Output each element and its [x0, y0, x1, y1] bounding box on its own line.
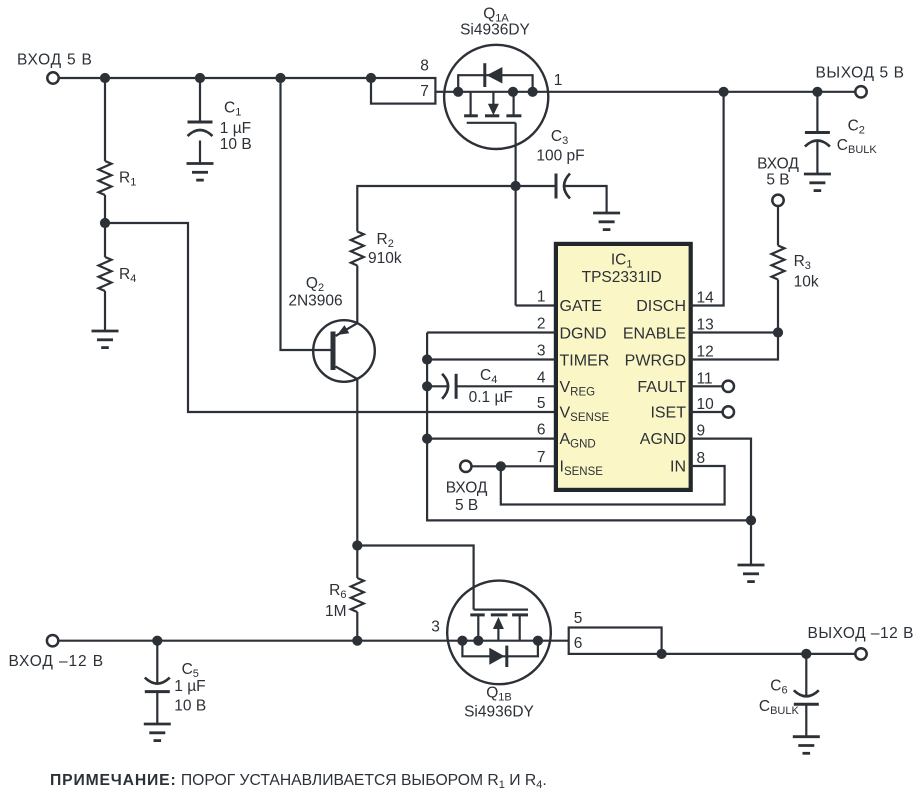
node AGND ground junction	[746, 515, 756, 525]
svg-text:13: 13	[697, 317, 714, 334]
wire gate node to Q1B gate	[357, 546, 473, 610]
svg-text:8: 8	[697, 450, 706, 467]
wire pin7 to Q1A	[435, 91, 444, 93]
svg-text:3: 3	[537, 343, 546, 360]
svg-text:100 pF: 100 pF	[536, 148, 584, 165]
wire R1 to R4	[104, 195, 106, 257]
transistor Q1B pins 5-6 loop	[569, 628, 662, 654]
wire -12V rail left	[58, 640, 447, 642]
node bus-TIMER	[422, 354, 432, 364]
svg-text:4: 4	[537, 369, 546, 386]
svg-text:Q1B: Q1B	[486, 684, 512, 703]
node bus-AGND6	[422, 434, 432, 444]
node junction rail-Q2base	[275, 73, 285, 83]
svg-text:C1: C1	[224, 100, 241, 119]
terminal ВЫХОД -12 В	[855, 648, 866, 659]
svg-text:1M: 1M	[325, 603, 347, 620]
Q1A substrate arrow	[488, 104, 499, 116]
wire TIMER to bus	[427, 358, 556, 360]
svg-text:ВХОД: ВХОД	[446, 479, 488, 496]
wire C3 left	[516, 185, 556, 187]
svg-text:10k: 10k	[794, 273, 819, 290]
wire C1 to ground	[199, 141, 201, 164]
terminal ВХОД 5 В bottom	[460, 461, 471, 472]
svg-text:Q2: Q2	[306, 275, 324, 294]
Q1B body diode	[489, 648, 504, 665]
svg-text:2: 2	[537, 316, 546, 333]
capacitor C3	[556, 174, 570, 199]
capacitor C5	[145, 678, 170, 692]
wire divider tap to VSENSE	[105, 223, 556, 412]
svg-text:910k: 910k	[368, 250, 402, 267]
svg-text:CBULK: CBULK	[759, 698, 800, 717]
svg-text:10: 10	[697, 396, 715, 413]
node rail-C2 junction	[812, 87, 822, 97]
svg-text:8: 8	[420, 58, 429, 75]
svg-text:R1: R1	[119, 170, 136, 189]
svg-text:10 В: 10 В	[220, 136, 252, 153]
transistor Q2	[313, 320, 375, 382]
svg-text:12: 12	[697, 344, 714, 361]
wire AGND-6 to bus	[427, 438, 556, 440]
svg-text:11: 11	[697, 370, 713, 387]
wire VREG to C4	[427, 385, 448, 387]
node gate link junction	[352, 540, 362, 550]
ground below R4	[92, 331, 119, 348]
svg-text:1: 1	[554, 72, 563, 89]
resistor R1	[99, 161, 112, 195]
node gate-C3 junction	[510, 181, 520, 191]
node Q1B left dot	[457, 636, 467, 646]
Q2 emitter arrow	[337, 325, 349, 335]
node Q1A source dot	[453, 87, 463, 97]
resistor R6	[351, 578, 364, 612]
svg-text:6: 6	[537, 422, 546, 439]
node junction rail-C1	[195, 73, 205, 83]
svg-text:R3: R3	[794, 253, 811, 272]
node Q1A right dot	[528, 87, 538, 97]
resistor R2	[351, 232, 364, 266]
wire AGND-9 to ground	[690, 439, 751, 565]
svg-text:ВХОД –12 В: ВХОД –12 В	[9, 653, 105, 670]
transistor Q1A body	[444, 45, 548, 149]
svg-text:C6: C6	[770, 678, 787, 697]
node junction rail-R1	[100, 73, 110, 83]
wire R1 top	[104, 78, 106, 161]
wire R3 top	[777, 206, 779, 246]
wire R2 top to gate node	[357, 186, 515, 232]
transistor Q1A pins 8-7 loop	[371, 78, 435, 104]
ground below C3	[593, 213, 620, 230]
svg-text:PWRGD: PWRGD	[625, 353, 686, 370]
svg-text:CBULK: CBULK	[837, 137, 878, 156]
svg-text:FAULT: FAULT	[637, 379, 686, 396]
node rail-C5 junction	[152, 636, 162, 646]
svg-text:C3: C3	[551, 128, 568, 147]
svg-text:5: 5	[574, 610, 583, 627]
svg-text:ISET: ISET	[650, 404, 686, 421]
wire C3 right to ground	[565, 186, 607, 213]
wire R3 bottom to ENABLE	[777, 280, 779, 333]
svg-text:C4: C4	[480, 367, 497, 386]
svg-text:1 µF: 1 µF	[174, 678, 205, 695]
wire R4 to ground	[104, 291, 106, 331]
node Q1B right dot	[533, 636, 543, 646]
wire C5 top	[156, 641, 158, 684]
svg-text:0.1 µF: 0.1 µF	[469, 389, 513, 406]
wire ISENSE loop to IN	[501, 466, 725, 505]
node ISENSE junction	[496, 461, 506, 471]
capacitor C1	[188, 122, 213, 136]
svg-text:R6: R6	[329, 582, 346, 601]
terminal ВХОД -12 В	[47, 635, 58, 646]
wire C6 top	[805, 654, 807, 696]
svg-text:10 В: 10 В	[174, 697, 206, 714]
svg-text:6: 6	[574, 635, 583, 652]
svg-text:TIMER: TIMER	[560, 353, 610, 370]
wire top 5V rail left	[59, 77, 371, 79]
svg-text:ПРИМЕЧАНИЕ: ПОРОГ УСТАНАВЛИВАЕ: ПРИМЕЧАНИЕ: ПОРОГ УСТАНАВЛИВАЕТСЯ ВЫБОРО…	[50, 772, 547, 791]
svg-text:DISCH: DISCH	[636, 298, 686, 315]
resistor R4	[99, 257, 112, 291]
capacitor C4	[442, 374, 456, 399]
svg-text:ENABLE: ENABLE	[623, 325, 686, 342]
wire Q1A drain rail to output	[548, 91, 855, 93]
svg-text:5 В: 5 В	[766, 171, 789, 188]
wire R2 bottom to Q2 emitter	[356, 266, 358, 324]
node junction rail-pin8	[366, 73, 376, 83]
svg-text:ВХОД 5 В: ВХОД 5 В	[17, 52, 93, 69]
wire C1 top	[199, 78, 201, 122]
wire Q2 collector down	[356, 379, 358, 546]
terminal ВХОД 5 В right	[772, 195, 783, 206]
node ENABLE-R3 junction	[773, 327, 783, 337]
terminal ВХОД 5 В	[47, 72, 58, 83]
svg-text:GATE: GATE	[560, 298, 602, 315]
wire C6 to ground	[805, 704, 807, 736]
svg-text:C2: C2	[848, 118, 865, 137]
svg-text:1 µF: 1 µF	[220, 120, 251, 137]
svg-text:R4: R4	[119, 266, 136, 285]
svg-text:IN: IN	[670, 459, 686, 476]
wire Q1B to 5-6 loop	[551, 640, 569, 642]
node rail-DISCH junction	[719, 87, 729, 97]
wire ENABLE to R3	[690, 331, 778, 333]
wire Q1A gate vertical	[516, 123, 556, 306]
wire PWRGD to R3 node	[690, 333, 778, 360]
svg-text:5: 5	[537, 395, 546, 412]
node Q1A mid dot	[508, 87, 518, 97]
svg-text:ВХОД: ВХОД	[757, 155, 799, 172]
wire R6 top	[356, 546, 358, 579]
wire C4 to VREG pin	[456, 385, 556, 387]
wire bus vertical and ground run	[427, 333, 751, 521]
wire DGND to bus	[427, 331, 556, 333]
svg-text:TPS2331ID: TPS2331ID	[582, 269, 662, 286]
svg-text:Si4936DY: Si4936DY	[464, 704, 534, 721]
svg-text:DGND: DGND	[560, 325, 607, 342]
svg-text:Si4936DY: Si4936DY	[460, 22, 530, 39]
ground below C1	[187, 164, 214, 181]
ground AGND	[738, 565, 765, 582]
ground below C5	[144, 724, 171, 741]
node rail-R6 junction	[352, 636, 362, 646]
ground below C6	[793, 737, 820, 754]
svg-text:ВЫХОД 5 В: ВЫХОД 5 В	[815, 65, 904, 82]
svg-text:5 В: 5 В	[455, 497, 478, 514]
svg-text:2N3906: 2N3906	[288, 293, 342, 310]
ground below C2	[804, 174, 831, 191]
transistor Q1B body	[447, 581, 551, 685]
svg-text:14: 14	[697, 290, 715, 307]
capacitor C6	[794, 690, 819, 704]
node rail-C6 junction	[801, 649, 811, 659]
Q1A body diode	[487, 67, 503, 84]
node junction R1-R4 tap	[100, 218, 110, 228]
wire Q2 base vertical	[281, 78, 331, 350]
terminal ВЫХОД 5 В	[855, 86, 866, 97]
svg-text:ВЫХОД –12 В: ВЫХОД –12 В	[808, 625, 914, 642]
Q1B substrate arrow	[493, 617, 504, 629]
wire C2	[816, 92, 818, 174]
terminal FAULT	[723, 381, 734, 392]
wire FAULT stub	[690, 385, 723, 387]
svg-text:7: 7	[420, 83, 429, 100]
op-amp IC1 TPS2331ID body	[556, 244, 691, 490]
svg-text:9: 9	[697, 423, 706, 440]
wire ISET stub	[690, 411, 723, 413]
svg-text:AGND: AGND	[640, 431, 686, 448]
wire R6 bottom	[356, 612, 358, 641]
wire DISCH up to rail	[690, 92, 724, 306]
wire C5 to ground	[156, 692, 158, 724]
resistor R3	[772, 246, 785, 280]
wire ISENSE to input terminal	[472, 465, 557, 467]
capacitor C2	[805, 133, 830, 147]
node Q1B mid dot	[473, 636, 483, 646]
wire -12V output rail	[662, 653, 856, 655]
terminal ISET	[723, 406, 734, 417]
svg-text:3: 3	[431, 618, 440, 635]
node loop corner junction	[657, 649, 667, 659]
svg-text:7: 7	[537, 449, 546, 466]
svg-text:1: 1	[537, 289, 546, 306]
svg-text:R2: R2	[377, 231, 394, 250]
node bus-C4	[422, 381, 432, 391]
